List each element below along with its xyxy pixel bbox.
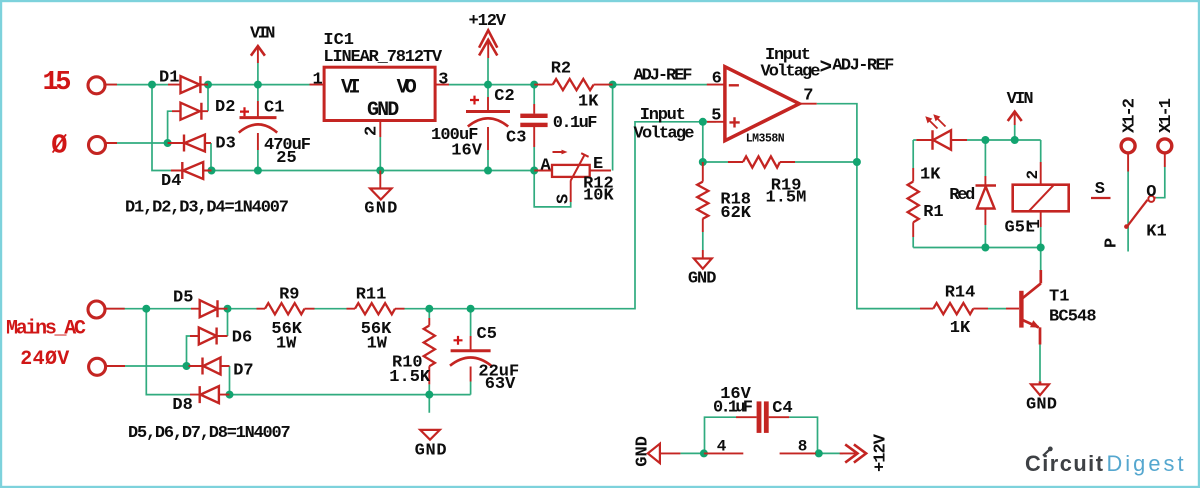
svg-text:Voltage: Voltage [761, 63, 821, 82]
svg-text:2: 2 [1024, 170, 1042, 180]
svg-text:BC548: BC548 [1049, 307, 1097, 326]
svg-text:1K: 1K [920, 166, 941, 185]
svg-text:GND: GND [415, 442, 447, 461]
svg-text:+12V: +12V [872, 433, 891, 472]
svg-text:ADJ-REF: ADJ-REF [634, 67, 693, 86]
svg-text:1K: 1K [950, 319, 971, 338]
svg-text:R9: R9 [279, 286, 299, 305]
svg-text:Input: Input [640, 106, 686, 125]
svg-text:VO: VO [397, 77, 417, 100]
svg-text:7: 7 [803, 86, 813, 105]
svg-text:25: 25 [276, 149, 296, 168]
svg-text:2: 2 [363, 126, 382, 136]
svg-text:GND: GND [1026, 396, 1057, 415]
svg-text:D3: D3 [215, 135, 235, 154]
svg-text:8: 8 [798, 438, 808, 456]
svg-text:K1: K1 [1146, 223, 1166, 242]
svg-text:>: > [820, 57, 833, 80]
svg-text:4: 4 [717, 438, 727, 456]
svg-text:C2: C2 [494, 87, 514, 106]
svg-text:62K: 62K [720, 204, 751, 223]
svg-text:VIN: VIN [1007, 90, 1034, 109]
svg-text:VI: VI [341, 77, 361, 100]
svg-text:1: 1 [313, 71, 323, 90]
svg-text:6: 6 [712, 70, 722, 89]
svg-text:R2: R2 [551, 60, 571, 79]
svg-text:Red: Red [949, 186, 975, 205]
svg-text:0.1uF: 0.1uF [713, 398, 753, 417]
svg-text:D8: D8 [172, 396, 192, 415]
svg-text:D5,D6,D7,D8=1N4007: D5,D6,D7,D8=1N4007 [128, 424, 291, 443]
svg-text:C5: C5 [477, 325, 497, 344]
svg-text:LM358N: LM358N [746, 132, 785, 145]
svg-text:5: 5 [711, 106, 721, 125]
svg-text:T1: T1 [1049, 288, 1069, 307]
svg-text:R1: R1 [923, 203, 943, 222]
svg-text:1.5K: 1.5K [389, 368, 431, 387]
svg-text:Mains_AC: Mains_AC [6, 318, 86, 341]
svg-text:GND: GND [367, 99, 399, 122]
svg-text:0.1uF: 0.1uF [553, 114, 598, 133]
svg-text:GND: GND [688, 269, 717, 288]
svg-text:D6: D6 [232, 328, 252, 347]
svg-text:D1,D2,D3,D4=1N4007: D1,D2,D3,D4=1N4007 [125, 199, 289, 218]
svg-text:D4: D4 [161, 172, 181, 191]
svg-text:16V: 16V [451, 142, 482, 161]
svg-text:1W: 1W [367, 335, 388, 354]
svg-text:Voltage: Voltage [634, 125, 695, 144]
svg-text:Circuit: Circuit [1025, 451, 1103, 476]
svg-text:D7: D7 [233, 361, 253, 380]
svg-text:D5: D5 [173, 288, 193, 307]
svg-text:C4: C4 [772, 399, 792, 418]
svg-text:+12V: +12V [469, 12, 507, 31]
svg-text:GND: GND [364, 200, 397, 219]
svg-text:A: A [541, 156, 552, 175]
svg-text:S: S [555, 194, 574, 204]
svg-text:C3: C3 [506, 129, 526, 148]
svg-text:X1-1: X1-1 [1157, 98, 1176, 133]
svg-text:C1: C1 [264, 99, 284, 118]
svg-text:D2: D2 [215, 98, 235, 117]
svg-text:S: S [1095, 180, 1105, 199]
svg-text:R14: R14 [945, 284, 976, 303]
svg-text:24ØV: 24ØV [20, 348, 69, 371]
svg-text:VIN: VIN [250, 25, 276, 44]
svg-text:D1: D1 [159, 68, 179, 87]
svg-text:1: 1 [1026, 219, 1044, 229]
svg-text:LINEAR_7812TV: LINEAR_7812TV [323, 48, 442, 67]
svg-text:10K: 10K [583, 187, 614, 206]
svg-text:15: 15 [43, 68, 72, 98]
svg-text:3: 3 [438, 71, 448, 90]
svg-text:Digest: Digest [1107, 451, 1184, 476]
svg-text:P: P [1103, 238, 1122, 248]
svg-text:ADJ-REF: ADJ-REF [832, 56, 894, 75]
svg-text:O: O [1146, 183, 1156, 202]
svg-text:1K: 1K [578, 93, 599, 112]
svg-text:1W: 1W [276, 335, 297, 354]
svg-text:63V: 63V [485, 375, 516, 394]
svg-text:X1-2: X1-2 [1121, 98, 1140, 133]
svg-text:GND: GND [633, 436, 652, 467]
svg-text:E: E [593, 155, 603, 174]
svg-text:Ø: Ø [51, 131, 67, 161]
svg-text:R11: R11 [356, 286, 387, 305]
svg-text:1.5M: 1.5M [766, 189, 807, 208]
